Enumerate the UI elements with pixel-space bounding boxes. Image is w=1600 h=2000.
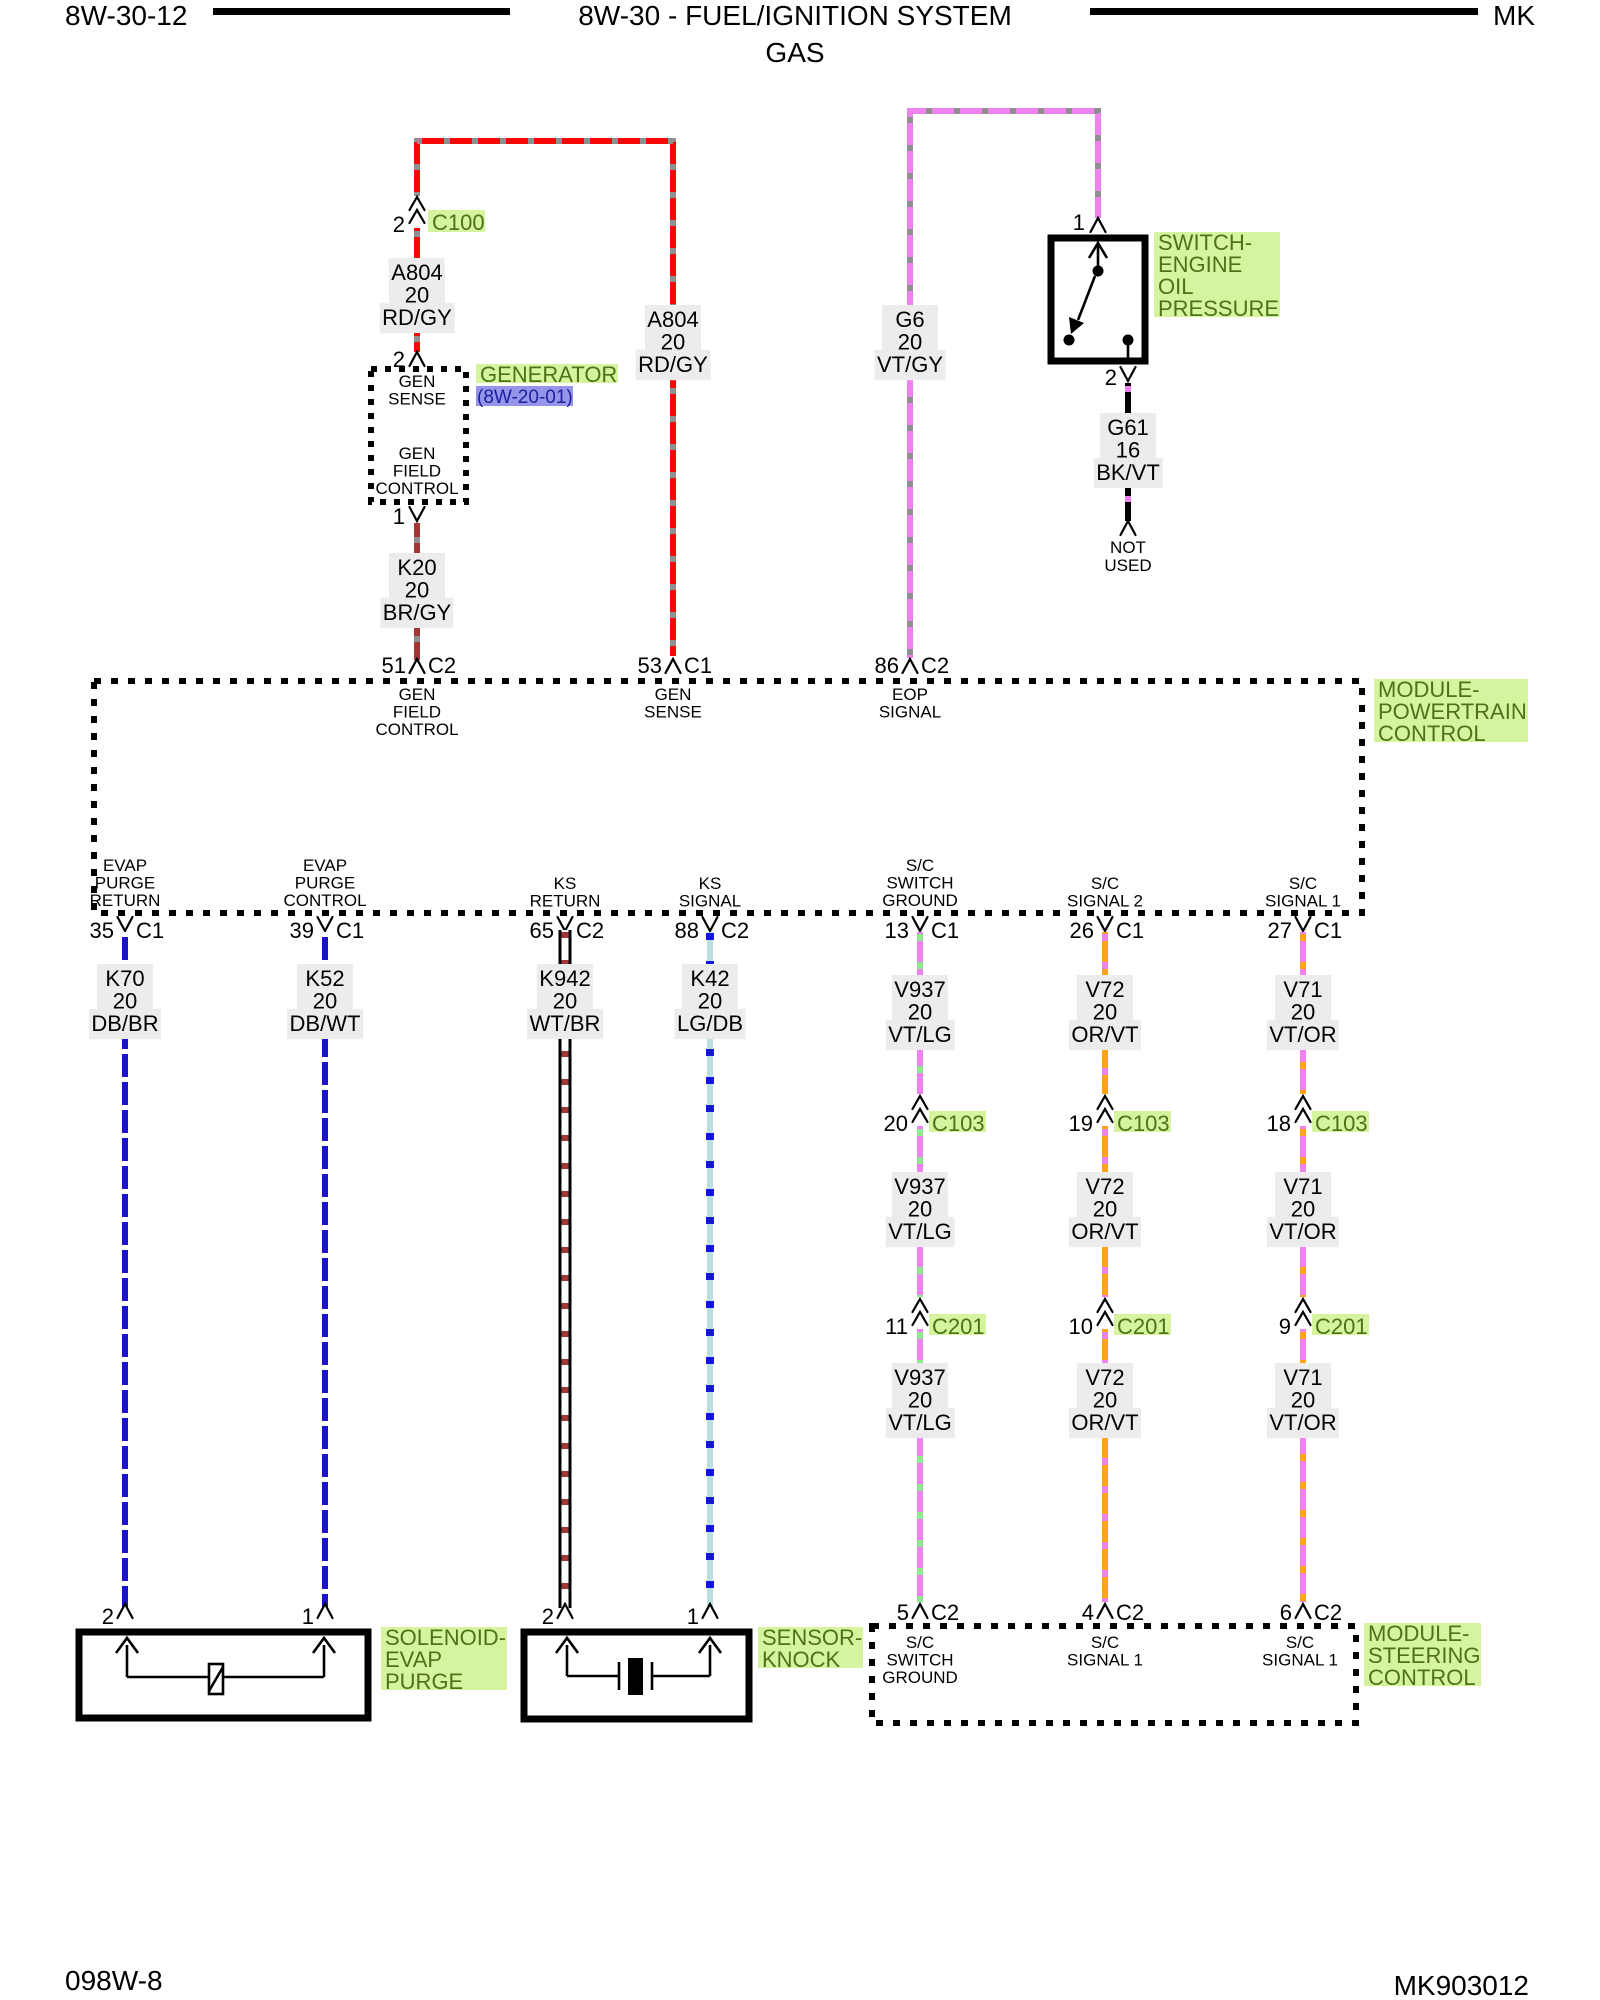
svg-text:K42: K42 — [690, 966, 729, 991]
solenoid internal terminal arrow pin 1 — [323, 1645, 326, 1677]
wire V71 segment C201 to label — [1300, 1329, 1306, 1363]
svg-text:BK/VT: BK/VT — [1096, 460, 1160, 485]
solenoid internal terminal arrow pin 2 — [126, 1645, 129, 1677]
svg-text:FIELD: FIELD — [393, 703, 441, 722]
wire label K70 20 DB/BR — [97, 964, 153, 987]
svg-text:20: 20 — [405, 577, 429, 602]
component label SOLENOID-EVAP PURGE — [381, 1627, 507, 1690]
generator dashed box — [371, 369, 466, 502]
svg-text:WT/BR: WT/BR — [530, 1011, 601, 1036]
svg-text:LG/DB: LG/DB — [677, 1011, 743, 1036]
svg-text:C2: C2 — [576, 918, 604, 943]
header rule left — [213, 8, 510, 15]
svg-text:V72: V72 — [1085, 1365, 1124, 1390]
svg-text:PURGE: PURGE — [95, 874, 155, 893]
svg-text:VT/GY: VT/GY — [877, 352, 943, 377]
svg-text:SIGNAL: SIGNAL — [679, 892, 741, 911]
header rule right — [1090, 8, 1478, 15]
svg-text:V71: V71 — [1283, 1174, 1322, 1199]
svg-text:20: 20 — [908, 1196, 932, 1221]
svg-text:MK903012: MK903012 — [1394, 1970, 1529, 2000]
svg-text:1: 1 — [302, 1604, 314, 1629]
svg-text:USED: USED — [1104, 556, 1151, 575]
svg-text:6: 6 — [1280, 1600, 1292, 1625]
svg-text:VT/LG: VT/LG — [888, 1410, 952, 1435]
svg-text:K52: K52 — [305, 966, 344, 991]
svg-text:OR/VT: OR/VT — [1071, 1022, 1138, 1047]
svg-text:C2: C2 — [1314, 1600, 1342, 1625]
wire label V72 (3) — [1077, 1363, 1133, 1386]
switch lower-left contact dot — [1064, 335, 1075, 346]
svg-text:OR/VT: OR/VT — [1071, 1410, 1138, 1435]
wire K52 long run to solenoid pin 1 — [322, 1039, 328, 1608]
svg-text:GAS: GAS — [765, 37, 824, 68]
svg-text:20: 20 — [908, 1387, 932, 1412]
wire V72 segment C201 to label — [1102, 1329, 1108, 1363]
svg-text:FIELD: FIELD — [393, 462, 441, 481]
svg-text:VT/OR: VT/OR — [1269, 1022, 1336, 1047]
svg-text:20: 20 — [405, 282, 429, 307]
svg-text:C1: C1 — [684, 653, 712, 678]
knock piezo element symbol — [618, 1662, 621, 1690]
svg-text:88: 88 — [675, 918, 699, 943]
svg-text:VT/OR: VT/OR — [1269, 1410, 1336, 1435]
svg-text:EOP: EOP — [892, 685, 928, 704]
knock internal terminal arrow pin 1 — [709, 1645, 712, 1676]
wire G61 lower segment — [1125, 488, 1131, 521]
svg-text:K70: K70 — [105, 966, 144, 991]
svg-text:G61: G61 — [1107, 415, 1149, 440]
svg-text:PRESSURE: PRESSURE — [1158, 296, 1279, 321]
svg-text:26: 26 — [1070, 918, 1094, 943]
wire label V71 (3) — [1275, 1363, 1331, 1386]
svg-text:VT/LG: VT/LG — [888, 1022, 952, 1047]
svg-text:27: 27 — [1268, 918, 1292, 943]
connector C103 name highlight — [929, 1111, 986, 1132]
svg-text:39: 39 — [290, 918, 314, 943]
svg-text:MK: MK — [1493, 0, 1535, 31]
svg-text:V937: V937 — [894, 1174, 945, 1199]
wire K52 upper segment — [322, 932, 328, 964]
svg-text:SIGNAL 1: SIGNAL 1 — [1262, 1651, 1338, 1670]
svg-text:20: 20 — [1291, 1387, 1315, 1412]
svg-text:4: 4 — [1082, 1600, 1094, 1625]
svg-text:BR/GY: BR/GY — [383, 600, 452, 625]
svg-text:S/C: S/C — [1091, 874, 1119, 893]
svg-text:1: 1 — [393, 504, 405, 529]
svg-text:5: 5 — [897, 1600, 909, 1625]
svg-text:8W-30 - FUEL/IGNITION SYSTEM: 8W-30 - FUEL/IGNITION SYSTEM — [578, 0, 1012, 31]
wire V71 segment C103 to label — [1300, 1126, 1306, 1172]
wire V72 segment label to C103 — [1102, 1050, 1108, 1094]
wire label K42 20 LG/DB — [682, 964, 738, 987]
svg-text:C201: C201 — [1117, 1314, 1170, 1339]
svg-text:RETURN: RETURN — [530, 892, 601, 911]
switch-engine oil pressure box — [1051, 238, 1145, 361]
svg-text:RD/GY: RD/GY — [638, 352, 708, 377]
wire V937 segment PCM to label — [917, 932, 923, 975]
svg-text:NOT: NOT — [1110, 538, 1146, 557]
svg-text:GEN: GEN — [655, 685, 692, 704]
svg-text:KS: KS — [554, 874, 577, 893]
wire K942 long run to knock sensor pin 2 — [559, 1039, 572, 1608]
svg-text:C1: C1 — [931, 918, 959, 943]
component label SWITCH-ENGINE OIL PRESSURE — [1154, 232, 1280, 317]
svg-text:20: 20 — [898, 329, 922, 354]
wire A804 segment C100 to label — [414, 228, 420, 258]
svg-text:DB/WT: DB/WT — [290, 1011, 361, 1036]
connector C103 double chevron — [1098, 1096, 1113, 1109]
wire K20 lower segment — [414, 628, 420, 660]
wire label G61 16 BK/VT — [1100, 413, 1156, 436]
svg-text:PURGE: PURGE — [385, 1669, 463, 1694]
wire label A804 20 RD/GY (right) — [645, 305, 701, 328]
switch pin 2 stub — [1127, 345, 1130, 358]
svg-text:V71: V71 — [1283, 977, 1322, 1002]
connector C201 name highlight — [1312, 1314, 1369, 1335]
solenoid coil symbol — [209, 1664, 223, 1694]
svg-text:EVAP: EVAP — [103, 856, 147, 875]
svg-text:V72: V72 — [1085, 977, 1124, 1002]
svg-text:C201: C201 — [932, 1314, 985, 1339]
switch lower-right contact dot — [1123, 335, 1134, 346]
connector C103 double chevron — [913, 1096, 928, 1109]
switch blade with arrowhead — [1078, 276, 1095, 320]
wire A804 segment label to generator pin — [414, 333, 420, 352]
wire V71 segment PCM to label — [1300, 932, 1306, 975]
svg-text:86: 86 — [875, 653, 899, 678]
svg-text:CONTROL: CONTROL — [1378, 721, 1486, 746]
svg-text:K942: K942 — [539, 966, 590, 991]
svg-text:2: 2 — [1105, 365, 1117, 390]
connector C201 double chevron — [913, 1299, 928, 1312]
svg-text:20: 20 — [553, 988, 577, 1013]
module-steering control dashed box — [872, 1626, 1356, 1723]
wire K70 upper segment — [122, 932, 128, 964]
svg-text:CONTROL: CONTROL — [375, 720, 458, 739]
svg-text:S/C: S/C — [906, 1633, 934, 1652]
pin 1 chevron at switch — [1091, 218, 1106, 232]
svg-text:C100: C100 — [432, 210, 485, 235]
svg-text:2: 2 — [102, 1604, 114, 1629]
svg-text:C103: C103 — [1117, 1111, 1170, 1136]
svg-text:VT/OR: VT/OR — [1269, 1219, 1336, 1244]
svg-text:098W-8: 098W-8 — [65, 1965, 163, 1996]
svg-text:CONTROL: CONTROL — [375, 479, 458, 498]
svg-text:C201: C201 — [1315, 1314, 1368, 1339]
svg-text:20: 20 — [113, 988, 137, 1013]
sensor-knock box — [524, 1632, 749, 1719]
svg-text:SIGNAL 2: SIGNAL 2 — [1067, 892, 1143, 911]
svg-text:RETURN: RETURN — [90, 891, 161, 910]
svg-text:KNOCK: KNOCK — [762, 1647, 841, 1672]
connector C103 name highlight — [1312, 1111, 1369, 1132]
svg-text:20: 20 — [313, 988, 337, 1013]
svg-text:C1: C1 — [336, 918, 364, 943]
wire label K942 20 WT/BR — [537, 964, 593, 987]
svg-text:SWITCH: SWITCH — [886, 874, 953, 893]
module-powertrain control dashed box — [94, 681, 1362, 913]
wire V937 segment label to C103 — [917, 1050, 923, 1094]
svg-text:1: 1 — [1073, 210, 1085, 235]
wire label K52 20 DB/WT — [297, 964, 353, 987]
svg-text:SWITCH: SWITCH — [886, 1651, 953, 1670]
solenoid internal wire — [127, 1676, 324, 1679]
wire K42 upper segment — [707, 932, 713, 964]
svg-text:A804: A804 — [647, 307, 698, 332]
wire V937 segment C201 to label — [917, 1329, 923, 1363]
svg-text:9: 9 — [1279, 1314, 1291, 1339]
svg-text:C2: C2 — [428, 653, 456, 678]
wire K42 long run to knock sensor pin 1 — [707, 1039, 713, 1608]
pin 53 chevron at PCM — [666, 659, 681, 673]
connector C100 name highlight — [428, 210, 485, 232]
wire V71 segment label to C201 — [1300, 1247, 1306, 1297]
connector C201 double chevron — [1296, 1299, 1311, 1312]
svg-text:20: 20 — [1093, 1387, 1117, 1412]
svg-text:S/C: S/C — [906, 856, 934, 875]
pin 2 chevron at generator — [410, 352, 425, 366]
component label SENSOR-KNOCK — [758, 1627, 863, 1668]
svg-text:PURGE: PURGE — [295, 874, 355, 893]
svg-text:SENSE: SENSE — [644, 703, 702, 722]
svg-text:V71: V71 — [1283, 1365, 1322, 1390]
svg-text:GEN: GEN — [399, 685, 436, 704]
svg-text:8W-30-12: 8W-30-12 — [65, 0, 187, 31]
wire label V937 (3) — [892, 1363, 948, 1386]
svg-text:(8W-20-01): (8W-20-01) — [477, 387, 573, 408]
svg-text:19: 19 — [1069, 1111, 1093, 1136]
connector C201 name highlight — [1114, 1314, 1171, 1335]
knock internal wiring — [567, 1675, 619, 1678]
svg-text:20: 20 — [884, 1111, 908, 1136]
svg-text:S/C: S/C — [1289, 874, 1317, 893]
svg-text:K20: K20 — [397, 555, 436, 580]
svg-text:SENSE: SENSE — [388, 390, 446, 409]
wire K20 upper segment — [414, 523, 420, 553]
knock internal terminal arrow pin 2 — [566, 1645, 569, 1676]
svg-text:C2: C2 — [1116, 1600, 1144, 1625]
svg-text:S/C: S/C — [1286, 1633, 1314, 1652]
wire label A804 20 RD/GY (left) — [389, 258, 445, 281]
wire label V71 (1) — [1275, 975, 1331, 998]
wire K70 long run to solenoid pin 2 — [122, 1039, 128, 1608]
wire V71 long run to steering module — [1300, 1438, 1306, 1602]
wire label V937 (2) — [892, 1172, 948, 1195]
connector C103 double chevron — [1296, 1096, 1311, 1109]
solenoid-evap purge box — [79, 1632, 368, 1718]
reference link (8W-20-01) — [476, 386, 573, 406]
wire label K20 20 BR/GY — [389, 553, 445, 576]
pin 1 chevron below generator — [410, 507, 425, 521]
pin 86 chevron at PCM — [903, 659, 918, 673]
svg-text:13: 13 — [885, 918, 909, 943]
svg-text:EVAP: EVAP — [303, 856, 347, 875]
svg-text:51: 51 — [382, 653, 406, 678]
svg-text:2: 2 — [393, 212, 405, 237]
svg-text:S/C: S/C — [1091, 1633, 1119, 1652]
svg-text:OR/VT: OR/VT — [1071, 1219, 1138, 1244]
svg-text:SIGNAL 1: SIGNAL 1 — [1067, 1651, 1143, 1670]
switch common contact dot — [1093, 266, 1104, 277]
svg-text:C103: C103 — [932, 1111, 985, 1136]
component label GENERATOR — [476, 364, 618, 383]
wire V72 long run to steering module — [1102, 1438, 1108, 1602]
svg-text:V937: V937 — [894, 1365, 945, 1390]
svg-text:CONTROL: CONTROL — [1368, 1665, 1476, 1690]
svg-text:20: 20 — [698, 988, 722, 1013]
svg-text:GENERATOR: GENERATOR — [480, 362, 617, 387]
svg-text:G6: G6 — [895, 307, 924, 332]
svg-text:65: 65 — [530, 918, 554, 943]
wire V937 long run to steering module — [917, 1438, 923, 1602]
wire V72 segment C103 to label — [1102, 1126, 1108, 1172]
svg-text:20: 20 — [908, 999, 932, 1024]
switch terminal arrow (common) — [1097, 246, 1100, 271]
svg-text:16: 16 — [1116, 437, 1140, 462]
svg-text:GEN: GEN — [399, 444, 436, 463]
svg-text:KS: KS — [699, 874, 722, 893]
connector C201 name highlight — [929, 1314, 986, 1335]
svg-text:1: 1 — [687, 1604, 699, 1629]
svg-text:SIGNAL 1: SIGNAL 1 — [1265, 892, 1341, 911]
svg-text:V72: V72 — [1085, 1174, 1124, 1199]
wire G61 upper segment — [1125, 383, 1131, 413]
connector C201 double chevron — [1098, 1299, 1113, 1312]
component label MODULE-STEERING CONTROL — [1364, 1623, 1481, 1686]
svg-text:20: 20 — [661, 329, 685, 354]
svg-text:C1: C1 — [136, 918, 164, 943]
svg-text:2: 2 — [542, 1604, 554, 1629]
svg-text:C2: C2 — [921, 653, 949, 678]
wire G6 VT/GY run (down to PCM pin 86 C2) — [910, 111, 1098, 658]
svg-text:C103: C103 — [1315, 1111, 1368, 1136]
svg-text:18: 18 — [1267, 1111, 1291, 1136]
svg-text:GEN: GEN — [399, 372, 436, 391]
wire V937 segment label to C201 — [917, 1247, 923, 1297]
wire V72 segment PCM to label — [1102, 932, 1108, 975]
pin 51 chevron at PCM — [410, 659, 425, 673]
svg-text:VT/LG: VT/LG — [888, 1219, 952, 1244]
svg-text:35: 35 — [90, 918, 114, 943]
svg-text:C1: C1 — [1116, 918, 1144, 943]
svg-text:20: 20 — [1291, 1196, 1315, 1221]
connector C103 name highlight — [1114, 1111, 1171, 1132]
wire label V937 (1) — [892, 975, 948, 998]
svg-text:GROUND: GROUND — [882, 891, 958, 910]
svg-text:A804: A804 — [391, 260, 442, 285]
wire label G6 20 VT/GY — [882, 305, 938, 328]
svg-text:C2: C2 — [931, 1600, 959, 1625]
svg-text:SIGNAL: SIGNAL — [879, 703, 941, 722]
pin 2 chevron below switch — [1121, 367, 1136, 381]
svg-text:GROUND: GROUND — [882, 1668, 958, 1687]
svg-text:11: 11 — [885, 1314, 908, 1339]
svg-text:CONTROL: CONTROL — [283, 891, 366, 910]
wire V71 segment label to C103 — [1300, 1050, 1306, 1094]
wire label V72 (2) — [1077, 1172, 1133, 1195]
svg-text:DB/BR: DB/BR — [91, 1011, 158, 1036]
not used chevron — [1121, 521, 1136, 535]
svg-text:RD/GY: RD/GY — [382, 305, 452, 330]
wire label V72 (1) — [1077, 975, 1133, 998]
wire V937 segment C103 to label — [917, 1126, 923, 1172]
component label MODULE-POWERTRAIN CONTROL — [1374, 679, 1528, 742]
svg-text:20: 20 — [1093, 1196, 1117, 1221]
wire label V71 (2) — [1275, 1172, 1331, 1195]
svg-text:C2: C2 — [721, 918, 749, 943]
svg-text:C1: C1 — [1314, 918, 1342, 943]
connector C100 double chevron in-line — [410, 197, 425, 210]
wire A804 RD/GY main run (hat shape down to PCM pin 53 C1) — [417, 141, 673, 656]
svg-text:20: 20 — [1093, 999, 1117, 1024]
svg-text:53: 53 — [638, 653, 662, 678]
svg-text:10: 10 — [1069, 1314, 1093, 1339]
wire K942 upper segment — [559, 930, 572, 964]
wire V72 segment label to C201 — [1102, 1247, 1108, 1297]
svg-text:20: 20 — [1291, 999, 1315, 1024]
svg-text:V937: V937 — [894, 977, 945, 1002]
